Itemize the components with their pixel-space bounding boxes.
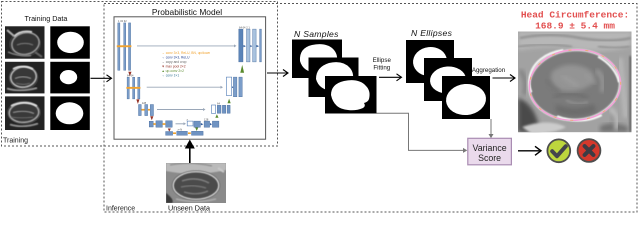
- mask tile row1: [50, 26, 90, 58]
- svg-text:64 64: 64 64: [127, 73, 134, 77]
- svg-text:→ copy and crop: → copy and crop: [162, 60, 187, 64]
- svg-text:Training Data: Training Data: [25, 14, 68, 23]
- L3 down arrow: [150, 116, 153, 120]
- mask tile row2: [50, 62, 90, 94]
- svg-text:Score: Score: [478, 153, 501, 163]
- L1 down arrow: [128, 72, 131, 77]
- green up to L2: [228, 99, 231, 104]
- top tissue band: [518, 32, 632, 51]
- ellipse square middle: [424, 58, 472, 101]
- speckle: [518, 32, 632, 133]
- svg-text:▼ max pool 2×2: ▼ max pool 2×2: [162, 64, 186, 68]
- connector samples to variance: [377, 113, 465, 150]
- green up from L5: [195, 127, 198, 131]
- svg-text:→ conv 3×3, ReLU, BN, up/down: → conv 3×3, ReLU, BN, up/down: [162, 51, 211, 55]
- L4 down arrow: [168, 129, 171, 132]
- decoder L2 row: [226, 77, 231, 95]
- arrow variance to icons: [518, 146, 541, 155]
- skip L3: [157, 109, 204, 111]
- bottom L5 boxes: [166, 131, 204, 135]
- sample square front: [325, 76, 377, 114]
- connector ellipses to variance: [490, 119, 492, 136]
- arrowhead into variance left: [463, 148, 467, 153]
- arrow ellipse fitting: [379, 74, 402, 81]
- dark right edge: [629, 56, 632, 132]
- decoder L4 row: [176, 123, 185, 125]
- svg-text:128: 128: [204, 117, 209, 121]
- svg-text:z~N: z~N: [178, 128, 183, 132]
- encoder L1 bars: [118, 23, 131, 70]
- skip L2: [147, 86, 221, 88]
- svg-text:Fitting: Fitting: [373, 65, 390, 72]
- green up to L3: [215, 114, 218, 118]
- L1 orange conv: [117, 45, 132, 47]
- ultrasound tile row3: [5, 96, 45, 130]
- ellipse square front: [442, 76, 490, 119]
- sample square middle: [309, 58, 359, 98]
- arrow model to samples: [267, 70, 288, 77]
- svg-text:128: 128: [142, 101, 147, 105]
- svg-text:→ conv 3×3, ReLU: → conv 3×3, ReLU: [162, 55, 191, 59]
- mask tile row3: [50, 96, 90, 130]
- brain smudges: [551, 65, 594, 91]
- pink fitted ellipse: [527, 47, 623, 124]
- svg-text:N Ellipses: N Ellipses: [411, 28, 453, 38]
- head interior: [528, 48, 622, 122]
- L2 down arrow: [136, 99, 139, 104]
- svg-text:Aggregation: Aggregation: [472, 67, 506, 74]
- svg-text:Ellipse: Ellipse: [373, 57, 392, 64]
- arrowhead into variance top: [489, 134, 494, 138]
- variance score box: [468, 138, 512, 165]
- svg-text:Variance: Variance: [473, 143, 507, 153]
- svg-text:Head Circumference:: Head Circumference:: [521, 10, 629, 21]
- dark corner bottom-left: [518, 98, 540, 132]
- right streaks: [620, 58, 626, 118]
- bright bottom band: [522, 123, 566, 135]
- svg-text:Unseen Data: Unseen Data: [168, 204, 210, 213]
- training dashed box: [2, 2, 278, 147]
- svg-text:Training: Training: [3, 138, 28, 145]
- inference dashed box: [104, 4, 637, 213]
- icon cross: [578, 139, 601, 162]
- encoder L2 bars: [127, 77, 140, 99]
- left mid texture: [520, 70, 525, 95]
- svg-text:Inference: Inference: [106, 206, 135, 213]
- svg-text:168.9 ± 5.4 mm: 168.9 ± 5.4 mm: [535, 21, 615, 32]
- ellipse square back: [406, 40, 454, 83]
- arrow training data to model: [91, 75, 112, 82]
- svg-text:▲ up-conv 2×2: ▲ up-conv 2×2: [162, 69, 185, 73]
- decoder L1 bars: [239, 29, 243, 62]
- svg-text:64 64 2 1: 64 64 2 1: [239, 25, 250, 29]
- encoder L3 bars: [139, 105, 154, 116]
- arrow aggregation: [493, 75, 516, 82]
- legend: [162, 51, 211, 78]
- decoder L3 row: [212, 105, 216, 113]
- arrow unseen to model: [185, 140, 195, 164]
- svg-text:N Samples: N Samples: [294, 29, 339, 39]
- ultrasound tile row2: [5, 62, 45, 94]
- ultrasound tile row1: [5, 26, 45, 58]
- skip L1: [137, 45, 235, 47]
- icon check: [547, 139, 570, 162]
- svg-text:1 32 32: 1 32 32: [118, 19, 127, 23]
- skull bright rim: [527, 47, 623, 123]
- encoder L4 boxes: [149, 121, 172, 127]
- svg-text:Probabilistic Model: Probabilistic Model: [152, 7, 222, 17]
- L2 orange conv: [126, 87, 140, 89]
- green up to L1: [240, 65, 244, 73]
- svg-text:→ conv 1×1: → conv 1×1: [162, 73, 180, 77]
- sample square back: [292, 40, 342, 79]
- probabilistic model box: [114, 17, 266, 139]
